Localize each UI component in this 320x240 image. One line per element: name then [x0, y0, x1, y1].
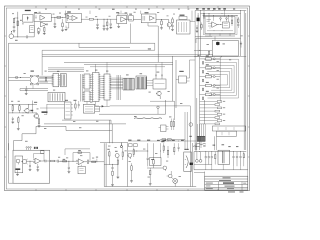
ground	[149, 184, 152, 185]
wire out right	[95, 107, 100, 112]
IC U16	[103, 74, 112, 100]
label u2	[34, 12, 37, 13]
labels opto	[65, 100, 77, 101]
LED bargraph DS1	[123, 78, 134, 90]
wire bus B pair	[42, 50, 213, 75]
capacitor C28	[78, 101, 80, 108]
wire decoder links	[40, 105, 65, 109]
resistor R28	[133, 148, 134, 158]
label U4	[67, 11, 71, 12]
relay array box A	[212, 126, 245, 131]
wire long low	[66, 120, 112, 143]
wire hook2	[117, 24, 120, 28]
ground	[36, 170, 39, 171]
driver chain Q3-Q7	[200, 55, 221, 100]
op-amp U8	[208, 22, 222, 28]
capacitor C27	[178, 143, 180, 151]
wire tall verticals	[173, 56, 176, 108]
capacitor C21	[57, 160, 58, 163]
resistor R4v	[44, 26, 45, 33]
wire pin bus verticals	[117, 75, 120, 100]
capacitor C7	[171, 26, 173, 30]
resistor R39	[162, 139, 166, 141]
IC U18 cluster	[176, 71, 190, 83]
wire long h2	[44, 123, 126, 125]
wire feed2	[9, 112, 38, 115]
label note2	[34, 102, 37, 103]
ruler labels	[45, 9, 189, 10]
op-amp U4A	[69, 16, 78, 21]
wire below connector	[201, 100, 217, 150]
wire hook gnd	[65, 23, 69, 31]
terminal J2	[196, 152, 199, 163]
capacitor C4	[54, 17, 56, 26]
wire right link	[190, 60, 196, 78]
wire u5 down	[129, 24, 131, 44]
relay array box B	[217, 131, 237, 136]
transistor Q21	[16, 159, 20, 164]
wire box inner bottom	[207, 29, 233, 32]
label U23	[15, 168, 20, 170]
transistor Q16	[216, 42, 225, 45]
IC U9 box	[222, 22, 229, 28]
connector circle2	[120, 143, 122, 148]
IC small A	[129, 144, 133, 147]
wire mid pair	[20, 89, 48, 91]
IC U23 inner box	[15, 156, 23, 173]
resistor R7	[156, 19, 166, 27]
wire center-box bottom	[99, 100, 166, 114]
ground	[16, 174, 19, 175]
IC U10	[52, 74, 61, 87]
wire long h1	[62, 120, 111, 124]
wire inner box top	[42, 43, 155, 50]
transistor Q14	[128, 153, 132, 159]
resistor R21	[63, 160, 67, 162]
audio block box	[13, 150, 50, 183]
ground	[29, 169, 32, 170]
resistor R29	[131, 163, 132, 180]
wire filter output	[81, 18, 89, 20]
ground	[103, 29, 106, 30]
resistor R12	[12, 105, 14, 113]
capacitor C26	[37, 164, 39, 170]
resistor R4	[67, 13, 68, 21]
wire box stubs	[207, 20, 221, 29]
timer block box	[212, 40, 238, 56]
wire h junction	[104, 163, 118, 166]
resistor R43	[163, 143, 164, 153]
labels row	[128, 140, 184, 141]
transistor Q12	[33, 114, 39, 119]
ground	[111, 185, 114, 186]
wire top row	[194, 150, 246, 153]
comparator block box	[203, 15, 237, 35]
diode row array D11-D18	[200, 101, 226, 125]
transistor Q1	[167, 23, 171, 30]
wire audio chain	[55, 160, 79, 163]
labels D1-D6 row	[196, 8, 235, 9]
wire U16-bargraph bridges	[110, 78, 123, 89]
resistor R32	[243, 152, 244, 167]
label U6	[145, 12, 149, 13]
capacitor C16	[211, 152, 213, 165]
wire V+ drop3	[120, 11, 122, 13]
wire title feed	[196, 143, 205, 176]
misc labels D	[198, 35, 243, 88]
label U7	[179, 15, 187, 20]
resistor R27	[122, 148, 123, 160]
ground	[13, 31, 16, 32]
ground	[43, 33, 46, 34]
resistor R1	[17, 21, 19, 26]
resistor R38	[173, 119, 174, 131]
wire bus left verticals	[195, 11, 200, 56]
resistor R9	[197, 15, 200, 21]
IC small B	[134, 144, 138, 147]
label mic	[15, 40, 18, 41]
resistor R47	[201, 23, 202, 31]
transistor Q17	[115, 154, 119, 160]
resistor R40	[168, 139, 172, 141]
transistor Q18	[163, 166, 167, 171]
wire row low	[160, 139, 185, 141]
IC U11	[61, 74, 67, 87]
IC U7 box	[177, 20, 191, 34]
ground bus	[104, 186, 196, 188]
resistor R13	[19, 105, 21, 113]
wire vline mid	[32, 101, 34, 113]
wire bus C pair	[64, 62, 173, 67]
label preamp	[25, 10, 31, 11]
capacitor C24	[110, 19, 112, 27]
ground	[109, 27, 112, 28]
wire left edge	[127, 143, 129, 186]
diode D10	[240, 42, 242, 48]
capacitor C9	[45, 160, 46, 163]
wire long vertical	[148, 23, 158, 63]
label X1	[31, 71, 34, 72]
wire h2	[147, 167, 163, 169]
capacitor C19	[239, 152, 241, 167]
connector circle	[157, 106, 159, 114]
diode D7	[220, 17, 222, 22]
resistor R46	[75, 101, 76, 110]
IC U2 aux box	[30, 26, 35, 33]
label J1 note	[197, 143, 206, 146]
terminal J3	[199, 152, 202, 163]
lamp DS2	[172, 178, 178, 187]
resistor R42	[41, 151, 45, 154]
speaker LS1	[184, 149, 192, 172]
wire bus A step	[79, 43, 130, 47]
IC U13	[83, 74, 92, 89]
ground	[11, 122, 14, 123]
resistor R11	[231, 17, 232, 26]
ground	[171, 29, 174, 30]
IC U12	[48, 92, 65, 101]
resistor R37	[171, 119, 172, 131]
wire lower connect	[195, 36, 241, 43]
op-amp U24	[33, 158, 45, 164]
resistor R2 branch	[13, 18, 17, 26]
capacitor C6	[103, 19, 105, 29]
wire bundle to J1	[198, 124, 206, 136]
ground	[130, 181, 133, 182]
capacitor C1	[13, 26, 15, 30]
wire riser	[33, 22, 35, 37]
resistor R33	[208, 50, 209, 54]
ground	[17, 129, 20, 130]
IC U17 striped	[136, 76, 147, 89]
relay K2 box	[153, 75, 166, 89]
capacitor C23	[12, 117, 14, 122]
capacitor C29	[196, 25, 199, 32]
resistor R41	[237, 17, 239, 28]
IC U4 box	[66, 13, 81, 22]
capacitor C8	[25, 86, 27, 93]
ground	[106, 29, 109, 30]
wire osc feed	[9, 77, 31, 81]
resistor R5	[89, 18, 117, 20]
wire under-IC links	[87, 100, 107, 107]
capacitor C18	[236, 152, 238, 167]
wire osc bridges	[33, 76, 53, 88]
ground	[37, 33, 40, 34]
capacitor C13	[147, 143, 149, 166]
label q17	[115, 151, 118, 152]
resistor R20	[51, 160, 58, 162]
wire nested loops	[204, 59, 239, 98]
misc labels F	[25, 103, 182, 142]
wire feedback loop2	[34, 154, 45, 161]
transistor Q11	[24, 105, 30, 114]
misc labels B	[24, 70, 170, 93]
node V+ rail tap	[16, 12, 19, 38]
label Q11	[30, 110, 33, 111]
wire inter rails	[194, 50, 246, 57]
wire bus A	[9, 42, 155, 44]
wire drop right	[150, 101, 175, 120]
wire bus D trio	[48, 68, 84, 72]
IC U6 box	[133, 11, 156, 23]
label U19	[42, 111, 48, 113]
terminal caps top	[26, 147, 31, 151]
resistor R5v	[62, 19, 63, 30]
capacitor C22	[68, 161, 70, 171]
wire osc out	[39, 78, 53, 83]
wire feedback loop	[65, 149, 90, 161]
op-amp U2B	[41, 22, 48, 27]
capacitor C5 series	[26, 36, 27, 39]
wire u7 to rail	[190, 11, 195, 22]
resistor R8	[172, 17, 174, 25]
transistor Q15	[167, 171, 173, 178]
ground	[117, 177, 120, 178]
wire bus drops	[96, 62, 163, 74]
wire drops	[206, 164, 241, 169]
resistor R26	[117, 160, 118, 177]
wire block inner rails	[200, 13, 240, 16]
connector J1	[197, 136, 206, 142]
IC U27 box	[159, 125, 169, 132]
wire top rail low	[128, 140, 196, 142]
wire left IC bus	[81, 74, 83, 102]
relay K3 box	[150, 158, 162, 166]
microphone MK1	[9, 31, 14, 38]
wire sub verticals	[185, 112, 187, 150]
labels br	[203, 144, 238, 147]
wire block bottom	[205, 34, 235, 37]
resistor R30	[153, 143, 154, 168]
capacitor C3	[37, 27, 40, 32]
resistor R6	[107, 19, 108, 29]
ground	[68, 172, 71, 173]
wire top-right rail	[195, 9, 246, 12]
wire mic line	[14, 36, 35, 38]
wire q20 out	[27, 160, 35, 163]
resistor R25	[112, 171, 113, 184]
wire top link	[100, 141, 128, 143]
IC U22 box	[83, 104, 94, 113]
wire chain verticals	[195, 56, 220, 150]
resistor R36	[167, 146, 168, 158]
resistor R3	[57, 16, 61, 18]
IC U20 dip	[65, 102, 73, 119]
capacitor C10	[87, 160, 88, 164]
diode D19	[100, 105, 110, 107]
ground	[25, 93, 28, 94]
misc labels C	[11, 90, 92, 122]
wire tall pair	[104, 143, 106, 186]
label bargraph note	[134, 117, 162, 120]
op-amp U25	[76, 159, 87, 165]
capacitor C5m	[96, 19, 98, 28]
IC U26 box	[78, 165, 85, 174]
resistor R24	[107, 149, 110, 165]
wire fb U5	[118, 14, 128, 19]
label sub	[161, 141, 164, 142]
diode D8	[226, 17, 228, 22]
transistor Q20	[21, 157, 28, 164]
IC U2 box opamp	[34, 14, 51, 22]
wire staircase left	[14, 126, 67, 150]
wire pre-title	[194, 172, 205, 174]
capacitor C14	[205, 152, 207, 165]
resistor R14	[18, 116, 20, 128]
op-amp U6A	[150, 16, 155, 21]
wire audio out	[46, 160, 50, 162]
wire right pair	[190, 141, 193, 187]
capacitor C15	[208, 152, 210, 165]
crystal oscillator X1	[30, 75, 39, 85]
wire striped-relay bridges	[147, 81, 154, 86]
wire k3 feed	[159, 143, 162, 157]
resistor R31	[150, 168, 151, 184]
label mid note	[148, 48, 151, 49]
capacitor C11	[111, 164, 113, 171]
wire vline right	[44, 104, 47, 115]
resistor R35	[78, 150, 82, 153]
capacitor C25	[29, 161, 31, 169]
wire U15-U16 bridges	[99, 76, 104, 98]
op-amp U5	[121, 17, 132, 22]
transistor Q19	[189, 123, 193, 137]
wire left rail low	[9, 143, 14, 183]
wire mid row	[194, 164, 212, 166]
wire V+ drop2	[89, 11, 91, 14]
wire drop right2	[110, 106, 191, 141]
IC U1 box	[23, 15, 34, 23]
wire feed	[9, 103, 38, 106]
transformer T1	[218, 150, 230, 164]
misc labels A	[12, 12, 175, 24]
resistor R45	[215, 152, 216, 165]
wire box drops	[209, 11, 232, 22]
label R21	[63, 159, 66, 160]
wire V+ drop	[65, 11, 67, 18]
transistor Q2	[156, 91, 161, 99]
ground	[96, 28, 99, 29]
wire mid	[89, 160, 105, 163]
wire right verticals	[241, 11, 246, 150]
resistor R10	[203, 11, 204, 19]
junctions	[168, 140, 179, 143]
capacitor C17	[232, 152, 234, 167]
label caps	[34, 147, 38, 149]
ground	[54, 26, 57, 27]
stub	[96, 157, 98, 162]
wire to detector	[166, 20, 169, 23]
IC U15	[91, 73, 100, 102]
ground	[160, 28, 163, 29]
wire out stage	[51, 16, 66, 19]
resistor R15	[38, 118, 40, 126]
resistor R23	[92, 161, 96, 163]
wire bottom bus	[194, 152, 248, 170]
IC U14	[83, 91, 92, 102]
connector circle2	[120, 142, 122, 147]
IC U28 small	[129, 14, 133, 21]
wire feed row	[128, 150, 148, 153]
label r1	[20, 20, 22, 21]
ground	[61, 30, 64, 31]
misc labels E	[58, 146, 181, 178]
label U5	[116, 12, 127, 13]
title block	[205, 176, 248, 190]
IC U5 box	[117, 16, 127, 24]
ground	[38, 126, 41, 127]
wire u23 gnd	[17, 170, 19, 174]
wire big-box left edge	[8, 43, 10, 150]
resistor R44	[174, 143, 175, 155]
label squiggle br	[193, 145, 199, 148]
